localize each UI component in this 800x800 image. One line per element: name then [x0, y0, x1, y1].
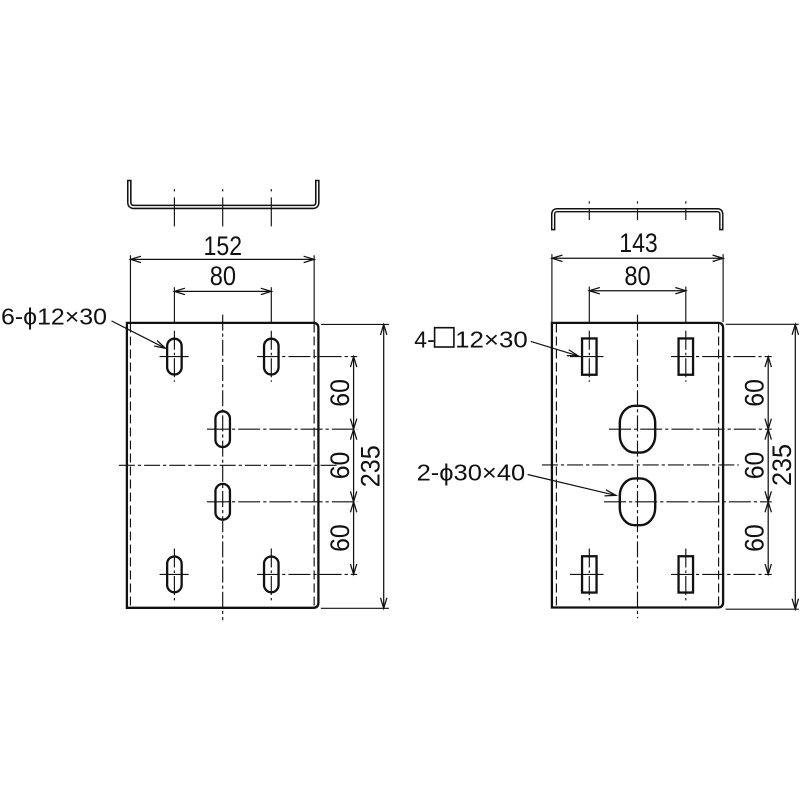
dimension line 152 — [132, 258, 314, 260]
arrows 60 chain row3 — [350, 491, 356, 502]
left plate slotted hole 12x30 C — [215, 411, 230, 447]
svg-text:152: 152 — [204, 231, 243, 261]
svg-text:80: 80 — [210, 261, 236, 291]
hole A horizontal centerline — [160, 356, 189, 358]
right profile hole center mark 1 — [588, 201, 590, 203]
right plate bend line left — [555, 324, 557, 608]
leader arrow for 2-&#x03D5;30&#215;40 — [604, 490, 615, 496]
hole F vertical centerline — [270, 549, 272, 601]
left plate bend line left — [129, 324, 131, 608]
leader line for 2-&#x03D5;30&#215;40 — [528, 475, 616, 496]
left plate outline (front view) — [127, 323, 319, 608]
right bracket channel profile (top view) — [553, 210, 721, 230]
right plate oval hole 30x40 K (upper) — [620, 406, 655, 453]
extension line 80 left — [173, 287, 175, 322]
hole D row line to dimension — [207, 501, 357, 503]
svg-text:143: 143 — [619, 228, 658, 258]
hole B row line to dimension — [257, 356, 357, 358]
hole H vertical centerline — [685, 331, 687, 382]
extension line 235 bottom (left) — [321, 607, 389, 609]
svg-text:12×30: 12×30 — [455, 326, 528, 352]
leader arrow for 4-square12x30 — [567, 350, 578, 356]
svg-text:60: 60 — [325, 452, 355, 480]
svg-text:4-: 4- — [414, 326, 434, 352]
extension line 80 right — [270, 287, 272, 322]
leader line for 6-&#x03D5;12&#215;30 — [112, 321, 166, 348]
dimension line 143 — [553, 257, 722, 259]
hole A vertical centerline — [173, 331, 175, 382]
right plate outline (front view) — [552, 323, 723, 608]
right plate square hole 12x30 G — [582, 338, 597, 374]
left plate slotted hole 12x30 A — [167, 339, 182, 375]
hole B vertical centerline — [270, 331, 272, 382]
dimension line 235 (right) — [794, 324, 796, 609]
extension line 143 right — [722, 254, 724, 322]
dimension line 80 (right) — [590, 290, 684, 292]
extension line 143 left — [551, 254, 553, 322]
extension line 235 bottom (right) — [726, 608, 799, 610]
right plate square hole 12x30 H — [679, 338, 694, 374]
label square symbol — [435, 328, 454, 347]
svg-text:60: 60 — [740, 524, 770, 552]
hole C row line to dimension — [207, 428, 357, 430]
dimension line 60 chain (right) — [767, 357, 769, 575]
arrow 60R chain top — [765, 357, 771, 368]
right plate bend line right — [718, 324, 720, 608]
right plate square hole 12x30 I — [582, 556, 597, 592]
hole G vertical centerline — [588, 331, 590, 382]
leader line for 4-square12x30 — [531, 341, 579, 356]
right profile hole center mark 3 — [685, 201, 687, 203]
svg-text:60: 60 — [740, 379, 770, 407]
arrow 60 chain bottom — [350, 564, 356, 575]
right plate vertical centerline — [637, 315, 639, 619]
extension line 235 top (left) — [321, 323, 389, 325]
svg-text:60: 60 — [325, 524, 355, 552]
svg-text:60: 60 — [325, 379, 355, 407]
svg-text:6-ϕ12×30: 6-ϕ12×30 — [1, 304, 107, 330]
dimension line 60 chain (left) — [353, 357, 355, 575]
arrow 60R chain bottom — [765, 564, 771, 575]
extension line 152 left — [129, 255, 131, 322]
svg-text:235: 235 — [355, 445, 385, 487]
hole F row line to dimension — [257, 573, 357, 575]
left plate vertical centerline — [222, 315, 224, 621]
hole G horizontal centerline — [570, 356, 604, 358]
dimension line 235 (left) — [383, 324, 385, 608]
left plate slotted hole 12x30 E — [167, 557, 182, 593]
svg-text:2-ϕ30×40: 2-ϕ30×40 — [417, 459, 526, 485]
hole E horizontal centerline — [160, 573, 189, 575]
arrows 60R chain row3 — [765, 491, 771, 502]
left profile hole center mark 1 — [173, 189, 175, 191]
leader arrow for 6-&#x03D5;12&#215;30 — [154, 341, 165, 349]
right plate oval hole 30x40 L (lower) — [620, 478, 655, 525]
dimension line 80 (left) — [176, 290, 271, 292]
arrows 60R chain row2 — [765, 419, 771, 430]
hole J row line to dimension — [671, 573, 772, 575]
hole L row line to dimension — [604, 501, 772, 503]
left plate slotted hole 12x30 F — [264, 557, 279, 593]
left plate slotted hole 12x30 D — [215, 484, 230, 520]
right plate horizontal centerline — [542, 464, 739, 466]
hole E vertical centerline — [173, 549, 175, 601]
left profile hole center mark 2 — [222, 189, 224, 191]
svg-text:235: 235 — [767, 444, 797, 486]
left plate bend line right — [313, 324, 315, 608]
arrows 60 chain row2 — [350, 419, 356, 430]
svg-text:60: 60 — [740, 452, 770, 480]
left plate horizontal centerline — [119, 464, 337, 466]
left profile hole center mark 3 — [270, 189, 272, 191]
left bracket channel profile (top view) — [129, 180, 317, 207]
right plate square hole 12x30 J — [679, 556, 694, 592]
hole H row line to dimension — [671, 356, 772, 358]
hole I vertical centerline — [588, 549, 590, 601]
extension line 80 right-left — [588, 287, 590, 323]
extension line 152 right — [313, 255, 315, 322]
left plate slotted hole 12x30 B — [264, 339, 279, 375]
arrow 60 chain top — [350, 357, 356, 368]
extension line 80 right-right — [685, 287, 687, 323]
hole J vertical centerline — [685, 549, 687, 601]
hole I horizontal centerline — [570, 573, 604, 575]
svg-text:80: 80 — [624, 261, 650, 291]
extension line 235 top (right) — [726, 323, 799, 325]
hole K row line to dimension — [609, 428, 772, 430]
right profile hole center mark 2 — [637, 201, 639, 203]
